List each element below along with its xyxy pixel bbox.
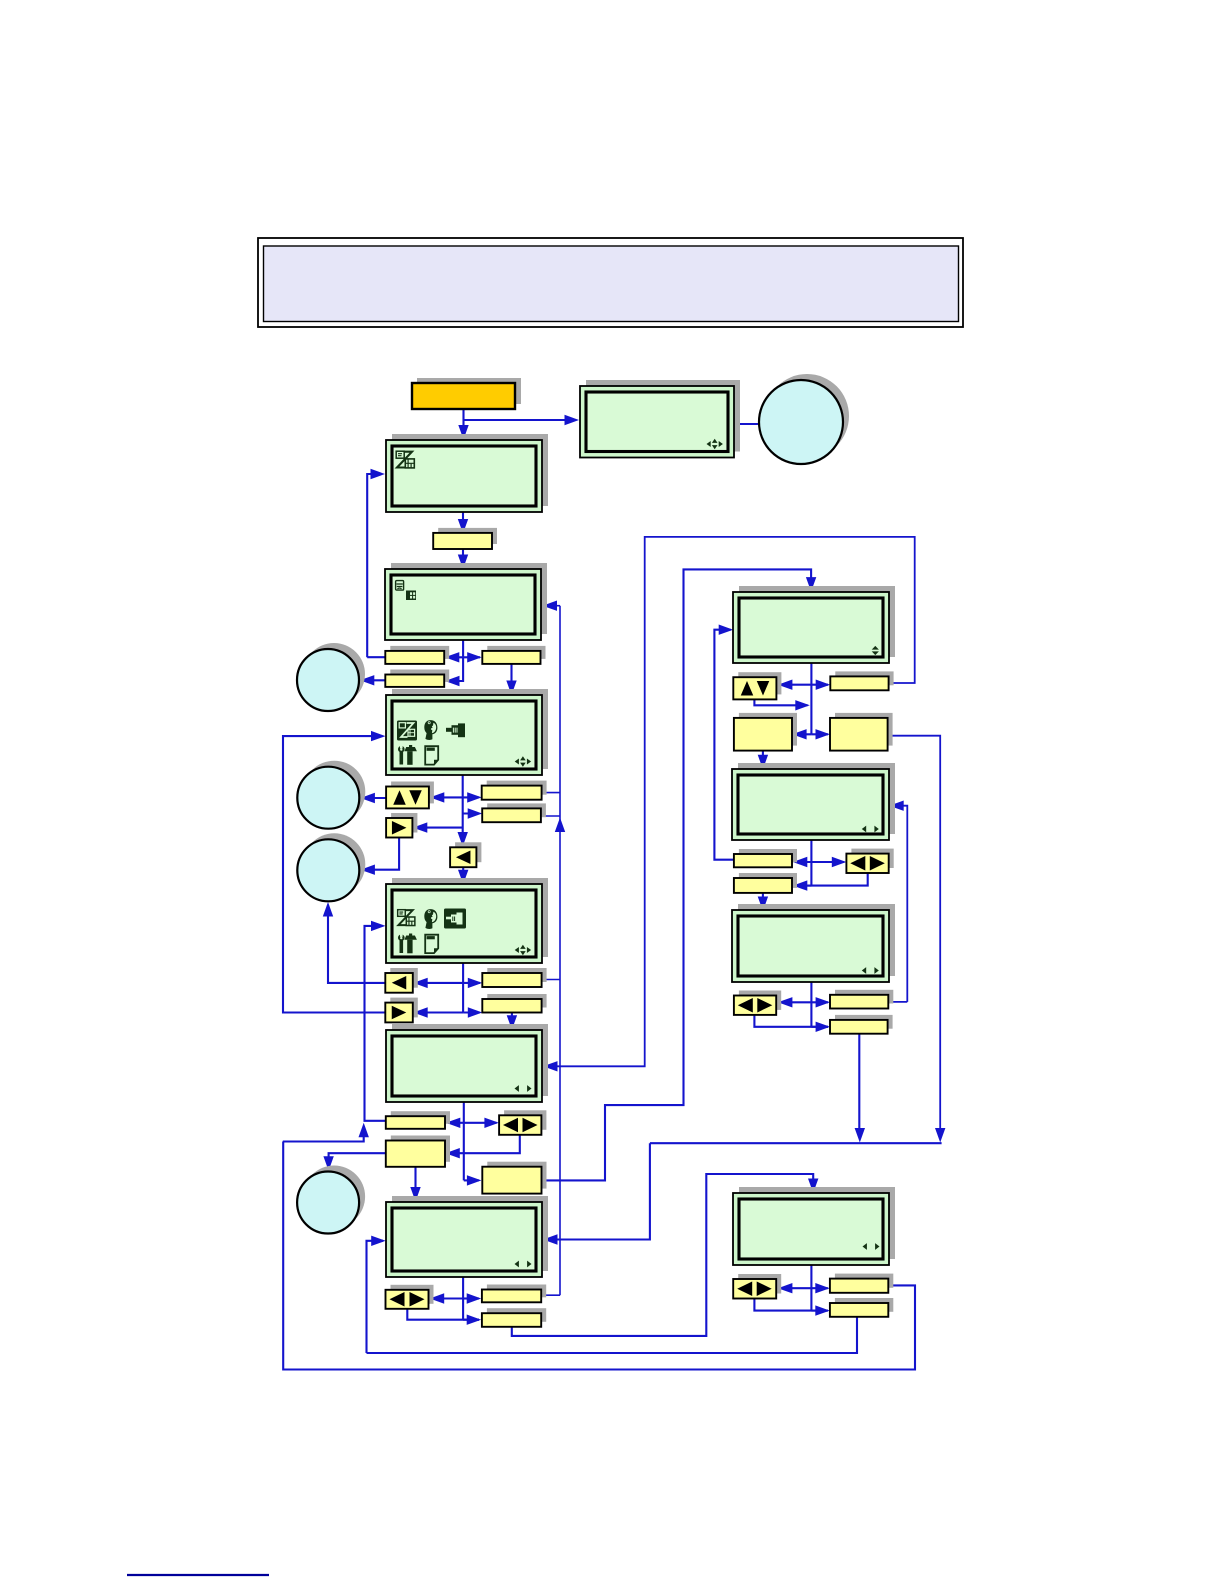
right-arrow button box (E row) [385,998,418,1023]
wire F3 box loop to screen H [542,569,817,1180]
I-row L2 box [734,873,797,893]
wire E-row R1 stub to rail [542,979,560,981]
screen C (language select) [385,563,547,640]
wire screen J bottom trunk [810,982,812,1026]
wire E to R1 box [463,978,482,988]
circle connector one (left) [297,643,365,711]
wire trunk split to level box right [811,729,830,739]
wire screen C bottom branch [445,640,463,686]
wire K to leftright button [778,1283,812,1293]
wire G-row R1 stub to rail [541,1294,560,1296]
wire E to right button [413,1007,463,1017]
wire bottom-left loop riser to F1 junction [283,1123,369,1142]
wire screen B to yes box [458,512,468,534]
wire J leftright button down [754,1015,828,1027]
wire K1 outer return loop [283,1142,915,1370]
wire C-row select down to screen D [506,664,516,695]
wire J to J1 box [811,997,830,1007]
wire screen F bottom trunk [463,1102,465,1180]
F-row F1 box [386,1111,450,1129]
wire return rail into screen G right [543,1143,650,1245]
wire E R2 down to screen F [507,1013,517,1030]
wire between C-row buttons [445,652,482,662]
G-row G1 box [482,1285,546,1303]
I-row L1 box [734,849,797,867]
leftright button box (K row) [733,1274,781,1299]
wire screen H bottom trunk [810,663,812,734]
screen A (power-on display) [580,380,740,458]
leftright button box (G row) [386,1285,434,1309]
wire G to G2 box [463,1315,481,1325]
wire D to updown button [430,792,463,802]
wire E right button loop to screen D [283,731,386,1013]
wire right button to circle three [360,838,399,875]
wire G2 loop to screen K [512,1174,819,1336]
C-row right button box [482,646,545,664]
D-row R1 box [482,781,547,800]
wire L2 down to screen J [758,893,768,911]
wire screen A to circle hand [734,423,759,425]
leftright button box (F row) [499,1110,546,1135]
wire screen G bottom trunk [462,1277,464,1320]
wire D-row R2 stub to rail [541,816,565,832]
K-row K1 box [830,1274,893,1293]
wire H to updown button [778,680,812,690]
wire screen K bottom trunk [810,1265,812,1310]
wire J1 stub [888,1001,907,1003]
wire yes box to screen C [458,549,468,569]
leftright button box (I row) [846,849,893,873]
wire right level box to down-rail [888,736,946,1143]
F-row F2 box [386,1136,450,1167]
screen I (option screen 1) [732,763,895,840]
screen J (option screen 2) [732,904,895,982]
K-row K2 box [830,1298,893,1317]
updown button box (H row) [733,672,781,699]
wire F2 box down to screen G [410,1167,420,1202]
level select box right [830,713,893,751]
wire screen E bottom trunk [462,963,464,1012]
F-row F3 box [482,1162,546,1194]
wire E to left button [413,978,463,988]
wire K2 middle return loop [367,1317,858,1353]
H-row MENU box [830,671,893,690]
wire I to L1 box [793,857,812,867]
wire left button down to screen E [458,867,468,884]
screen H (value adjust screen) [733,586,895,663]
wire D to R1 box [463,792,482,802]
button box (confirm) under screen B [433,528,497,549]
left-arrow button box (E row) [385,968,418,993]
title banner outer frame [258,238,963,327]
wire E to R2 box [463,1007,482,1017]
wire E left button to circle three bottom [323,902,386,983]
wire orange box to screen B [458,409,468,440]
wire branch to screen A [464,415,580,425]
J-row J1 box [830,990,893,1009]
footer rule (bottom left) [127,1574,269,1576]
screen D (main icon menu) [386,689,548,775]
wire middle loop riser into screen G [367,1236,386,1353]
wire I-row return into screen H left [714,625,734,860]
title banner inner panel [264,246,959,322]
wire J2 down to K-loop [855,1034,865,1143]
G-row G2 box [482,1308,546,1327]
leftright button box (J row) [734,991,781,1015]
wire D to right button [413,822,463,832]
screen E (icon menu, plug selected) [386,878,548,963]
wire screen I bottom trunk [810,840,812,885]
wire trunk split to level boxes [792,729,811,739]
C-row left button box 1 [385,646,449,664]
right-arrow button box (D row) [386,813,417,838]
wire J2 K-loop horizontal [650,1142,942,1144]
wire J to leftright button [778,997,812,1007]
J-row J2 box [830,1015,893,1034]
wire updown button to circle two [360,793,386,803]
wire G to leftright button [430,1293,463,1303]
E-row R2 box [482,994,546,1013]
wire K trunk to K2 box [811,1305,829,1315]
wire K leftright button down [754,1299,827,1311]
wire G leftright button down [407,1309,479,1320]
wire leftright button to F2 box [445,1135,520,1159]
wire I trunk to L2 box [793,880,812,890]
screen F (settings screen 1) [386,1024,548,1102]
wire F to F1 box [446,1118,464,1128]
wire C-row rail stub [367,656,386,658]
wire screen D bottom trunk [458,775,468,847]
wire F to leftright button [464,1118,499,1128]
wire MENU rail into screen B [367,469,385,657]
circle connector three (left) [297,833,365,901]
wire F1 box return loop to screen E [365,921,386,1121]
wire D-row R1 stub to rail [542,792,560,794]
wire F to F3 box [464,1175,482,1185]
wire H to MENU box [811,680,830,690]
wire F2 box to circle four [323,1153,385,1171]
wire rail x560 vertical [559,606,561,1295]
wire updown button merge [754,699,809,710]
circle connector (top right) [759,374,849,464]
C-row left button box 2 [385,670,449,687]
screen B (EZ start screen) [386,434,548,512]
wire D to R2 box [463,808,483,818]
screen K (option screen 3) [733,1187,895,1265]
D-row R2 box [482,803,546,822]
wire G to G1 box [463,1293,481,1303]
E-row R1 box [482,968,546,987]
wire screen C right return rail [543,601,561,611]
level select box left [734,713,797,751]
screen G (settings screen 2) [386,1196,548,1277]
wire J1 return into screen I right [889,801,907,1002]
wire J trunk to J2 box [811,1022,830,1032]
wire ESC to circle one [360,675,386,685]
circle connector four (left) [297,1166,365,1234]
wire I to leftright button [811,857,846,867]
start box (orange) [412,378,521,409]
wire K to K1 box [811,1283,829,1293]
wire I leftright button down [795,873,868,886]
left-arrow button box (D row) [450,842,481,867]
circle connector two (left) [297,761,365,829]
wire MENU loop from H-row into F [543,537,915,1072]
wire level box down to screen I [758,751,768,770]
updown button box (D row) [386,782,434,809]
